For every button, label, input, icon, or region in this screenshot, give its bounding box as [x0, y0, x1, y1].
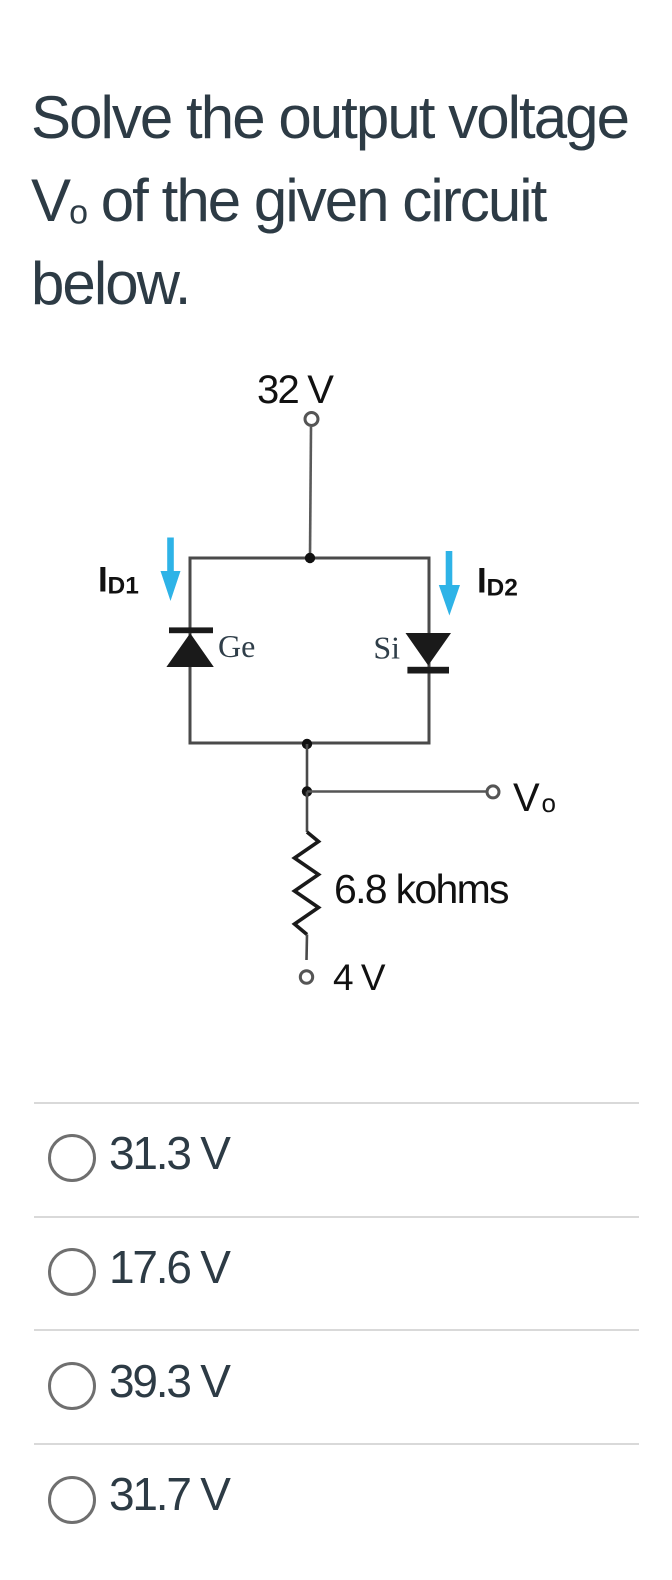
wire 32V feed: [310, 427, 311, 557]
svg-text:I: I: [477, 562, 487, 601]
answer options: [34, 1102, 639, 1104]
svg-text:D2: D2: [487, 575, 518, 602]
svg-text:D1: D1: [108, 573, 139, 600]
wire resistor to 4V terminal: [305, 935, 308, 961]
diode D2 Si (triangle pointing down, cathode bar below): [406, 633, 452, 674]
terminal 4V (open circle): [300, 971, 312, 983]
svg-text:V: V: [513, 776, 540, 820]
svg-text:o: o: [542, 788, 556, 818]
svg-text:Si: Si: [373, 630, 400, 666]
svg-text:I: I: [98, 561, 108, 600]
terminal Vo (open circle): [487, 786, 499, 798]
wire right branch: [428, 557, 431, 745]
node bottom-rail junction: [302, 739, 312, 749]
node top junction: [305, 553, 315, 563]
wire node to resistor: [306, 792, 309, 833]
terminal 32V (open circle): [305, 413, 318, 426]
resistor R1 6.8 kohms (zigzag): [295, 832, 319, 935]
wire left branch: [189, 557, 192, 745]
wire bottom rail: [189, 742, 431, 745]
current arrow ID1: [161, 538, 181, 602]
question title: [31, 76, 671, 325]
diode D1 Ge (cathode bar up, triangle pointing up): [166, 627, 213, 667]
wire top rail: [189, 557, 431, 560]
wire to Vo terminal: [307, 790, 486, 793]
current arrow ID2: [439, 551, 460, 616]
circuit figure: [0, 0, 672, 1080]
svg-text:6.8 kohms: 6.8 kohms: [334, 866, 509, 912]
wire bottom rail to output node: [306, 744, 309, 792]
node output junction: [302, 786, 312, 796]
svg-text:Ge: Ge: [218, 628, 255, 664]
svg-text:4 V: 4 V: [333, 957, 386, 998]
svg-text:32 V: 32 V: [257, 368, 334, 412]
